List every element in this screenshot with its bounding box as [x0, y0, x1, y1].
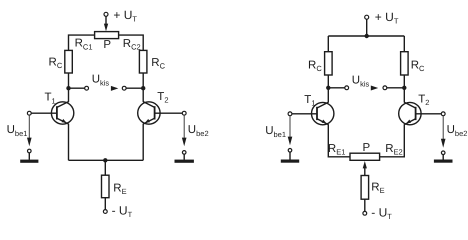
svg-text:P: P: [363, 142, 371, 154]
terminal ground Ube2 (right circuit): [441, 151, 445, 155]
svg-text:RC: RC: [49, 57, 63, 71]
label -UT (left circuit): [112, 204, 133, 220]
label RE2: [385, 143, 403, 157]
Ukis polarity arrow (left circuit): [111, 86, 118, 91]
wire: top rail: [328, 35, 404, 37]
terminal ground Ube1 (right circuit): [288, 149, 292, 153]
wire: +UT terminal to wiper arrow: [105, 16, 107, 24]
wire: rail to RC right: [403, 36, 405, 52]
wire: base of T2 (right circuit): [416, 113, 442, 115]
wire: emitter rail: [69, 159, 144, 161]
transistor T2 (left circuit): [138, 102, 160, 125]
svg-text:Ukis: Ukis: [92, 74, 110, 88]
label RC2: [123, 38, 141, 52]
resistor RC (left circuit, right): [139, 50, 147, 73]
label T1 (right circuit): [304, 94, 315, 108]
resistor RC (right circuit, right): [401, 52, 409, 75]
wire: pot right end to RC2 column: [119, 35, 144, 50]
wire: T2 emitter down: [142, 124, 144, 161]
Ukis polarity arrow (right circuit): [371, 86, 378, 91]
label +UT (left circuit): [113, 8, 137, 24]
voltage arrow Ube1 (left circuit): [27, 115, 32, 146]
wire: RC left to T1 collector (right circuit): [327, 75, 329, 103]
label P (left circuit): [103, 39, 111, 51]
wire: RE to -UT terminal: [104, 198, 106, 210]
potentiometer P wiper arrow (right circuit): [363, 161, 367, 168]
svg-text:RE: RE: [371, 182, 384, 196]
potentiometer P body (right circuit): [350, 153, 380, 160]
terminal ground Ube2 (left circuit): [182, 151, 186, 155]
transistor T1 (left circuit): [51, 102, 73, 125]
wire: base of T2: [155, 112, 183, 114]
terminal Ukis right (right circuit): [383, 86, 387, 90]
label Ube2 (left circuit): [188, 124, 209, 138]
svg-text:RC: RC: [411, 59, 425, 73]
label T2 (right circuit): [418, 94, 429, 108]
wire: T1 emitter down: [68, 124, 70, 161]
svg-text:RE: RE: [113, 182, 126, 196]
label -UT (right circuit): [371, 206, 392, 222]
terminal Ube2 input (right circuit): [441, 112, 445, 116]
wire: RC right to T2 collector: [142, 73, 144, 102]
ground symbol Ube2 (right circuit): [434, 155, 453, 163]
label T2 (left circuit): [157, 91, 168, 105]
svg-text:Ube2: Ube2: [188, 124, 209, 138]
svg-text:+ UT: + UT: [375, 10, 399, 26]
terminal Ube1 input (right circuit): [288, 112, 292, 116]
ground symbol Ube2 (left circuit): [175, 154, 194, 163]
wire: T1 emitter to pot left (right circuit): [328, 124, 350, 157]
svg-text:RC: RC: [308, 59, 322, 73]
terminal Ube2 input (left circuit): [182, 111, 186, 115]
transistor T2 (right circuit): [399, 102, 421, 125]
terminal +UT (right circuit): [365, 15, 369, 19]
label RC (left circuit, right): [151, 57, 165, 71]
label RC (right circuit, right): [411, 59, 425, 73]
wire: RE to -UT terminal (right circuit): [364, 199, 366, 211]
terminal Ukis right: [122, 86, 126, 90]
label RC (right circuit, left): [308, 59, 322, 73]
wire: pot left end to RC1 column: [69, 35, 95, 50]
resistor RC (right circuit, left): [325, 52, 333, 75]
resistor RC (left circuit, left): [65, 50, 73, 73]
svg-text:Ube1: Ube1: [7, 124, 28, 138]
svg-text:T2: T2: [418, 94, 429, 108]
svg-text:T1: T1: [45, 92, 56, 106]
terminal -UT (left circuit): [103, 210, 107, 214]
voltage arrow Ube1 (right circuit): [288, 116, 293, 146]
label RC (left circuit, left): [49, 57, 63, 71]
ground symbol Ube1 (left circuit): [20, 153, 38, 163]
label Ukis (right circuit): [352, 74, 370, 88]
wire: RC left to T1 collector: [68, 73, 70, 102]
terminal Ukis left: [85, 86, 89, 90]
svg-text:T1: T1: [304, 94, 315, 108]
label RE (right circuit): [371, 182, 384, 196]
terminal +UT (left circuit): [104, 12, 108, 16]
svg-text:- UT: - UT: [371, 206, 392, 222]
wire: rail to RE: [104, 160, 106, 175]
resistor RE (left circuit): [102, 175, 110, 198]
label Ube2 (right circuit): [447, 124, 468, 138]
svg-text:P: P: [103, 39, 111, 51]
potentiometer P body: [95, 32, 119, 39]
svg-text:+ UT: + UT: [113, 8, 137, 24]
label Ube1 (left circuit): [7, 124, 28, 138]
wire: RC right to T2 collector (right circuit): [403, 75, 405, 103]
wire: base of T1: [31, 112, 57, 114]
label T1 (left circuit): [45, 92, 56, 106]
svg-text:T2: T2: [157, 91, 168, 105]
terminal ground Ube1 (left circuit): [28, 149, 32, 153]
label RC1: [75, 38, 93, 52]
terminal Ube1 input (left circuit): [27, 111, 31, 115]
wire: rail to RC left: [327, 36, 329, 52]
voltage arrow Ube2 (right circuit): [441, 116, 446, 148]
wire: Ukis right terminal to right node: [126, 87, 143, 89]
junction: right collector node (right circuit): [402, 86, 406, 90]
wire: wiper to RE (right circuit): [364, 168, 366, 176]
wire: base of T1 (right circuit): [292, 113, 317, 115]
svg-text:Ukis: Ukis: [352, 74, 370, 88]
wire: +UT terminal to top rail: [366, 19, 368, 36]
svg-text:RC1: RC1: [75, 38, 93, 52]
svg-text:RC2: RC2: [123, 38, 141, 52]
junction: emitter rail node: [103, 158, 107, 162]
junction: left collector node: [66, 86, 70, 90]
svg-text:- UT: - UT: [112, 204, 133, 220]
wire: node to Ukis left terminal: [69, 87, 85, 89]
junction: left collector node (right circuit): [326, 86, 330, 90]
wire: Ukis right terminal to right node (right circuit): [387, 87, 405, 89]
potentiometer P wiper arrow: [104, 24, 108, 32]
junction: top rail node: [365, 34, 369, 38]
wire: node to Ukis left terminal (right circuit): [328, 87, 345, 89]
svg-text:RE2: RE2: [385, 143, 403, 157]
svg-text:RE1: RE1: [328, 143, 346, 157]
label +UT (right circuit): [375, 10, 399, 26]
ground symbol Ube1 (right circuit): [281, 152, 299, 163]
transistor T1 (right circuit): [312, 102, 334, 125]
wire: T2 emitter to pot right (right circuit): [380, 124, 405, 157]
svg-text:RC: RC: [151, 57, 165, 71]
terminal Ukis left (right circuit): [345, 86, 349, 90]
terminal -UT (right circuit): [363, 211, 367, 215]
junction: right collector node: [141, 86, 145, 90]
svg-text:Ube2: Ube2: [447, 124, 468, 138]
label Ukis (left circuit): [92, 74, 110, 88]
label Ube1 (right circuit): [265, 125, 286, 139]
svg-text:Ube1: Ube1: [265, 125, 286, 139]
label RE (left circuit): [113, 182, 126, 196]
voltage arrow Ube2 (left circuit): [182, 115, 187, 146]
label RE1: [328, 143, 346, 157]
resistor RE (right circuit): [361, 176, 369, 200]
label P (right circuit): [363, 142, 371, 154]
